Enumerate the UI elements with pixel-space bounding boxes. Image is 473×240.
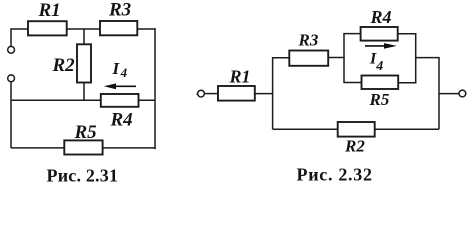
terminal: fig2.31 lower input terminal [8, 75, 15, 82]
wire: fig2.32 left node to R5 [344, 82, 362, 84]
svg-text:R4: R4 [370, 7, 392, 27]
svg-text:R1: R1 [38, 0, 61, 21]
svg-text:R3: R3 [108, 0, 131, 21]
resistor R3 (fig2.31) [100, 21, 137, 35]
svg-text:Рис. 2.32: Рис. 2.32 [297, 165, 373, 185]
wire: fig2.31 bottom wire [11, 147, 156, 149]
resistor R2 (fig2.31) [77, 44, 91, 82]
svg-text:I4: I4 [112, 59, 128, 80]
resistor R5 (fig2.31) [64, 140, 102, 154]
svg-text:R1: R1 [229, 67, 251, 87]
svg-text:R5: R5 [74, 122, 98, 143]
wire: fig2.32 parallel right node vertical [415, 33, 417, 83]
svg-text:R2: R2 [52, 55, 76, 76]
wire: fig2.32 R3 to parallel left node [328, 57, 345, 59]
wire: fig2.32 right node output [416, 57, 440, 59]
resistor R4 (fig2.31) [101, 94, 139, 107]
terminal: fig2.32 left terminal [198, 90, 205, 97]
wire: fig2.32 R4 to right node [398, 33, 417, 35]
current arrow I4 (fig2.32, pointing right) [365, 43, 397, 49]
resistor R4 (fig2.32) [361, 27, 398, 41]
terminal: fig2.32 right terminal [459, 90, 466, 97]
wire: fig2.32 junction to R3 [273, 57, 290, 59]
terminal: fig2.31 upper input terminal [8, 46, 15, 53]
svg-text:R3: R3 [298, 31, 319, 50]
wire: fig2.32 left junction vertical [272, 57, 274, 129]
wire: fig2.31 stub from R2 down to middle wire [83, 83, 85, 101]
resistor R1 (fig2.31) [28, 21, 67, 35]
wire: fig2.32 right vertical [438, 58, 440, 130]
wire: fig2.31 stub from top wire down to R2 [83, 29, 85, 44]
resistor R1 (fig2.32) [218, 86, 255, 101]
wire: fig2.32 R1 to left junction [255, 93, 273, 95]
wire: fig2.31 right vertical [154, 28, 156, 149]
wire: fig2.32 left node to R4 [344, 33, 361, 35]
wire: fig2.31 top wire [11, 28, 156, 30]
resistor R3 (fig2.32) [289, 51, 328, 66]
wire: fig2.32 parallel left node vertical [343, 33, 345, 83]
wire: fig2.32 tiny stub left of terminal [197, 93, 198, 95]
svg-text:R5: R5 [369, 90, 390, 109]
wire: fig2.31 left stub to upper terminal [10, 28, 12, 46]
svg-text:I4: I4 [369, 51, 383, 75]
resistor R2 (fig2.32) [338, 122, 375, 137]
wire: fig2.32 R5 to right node [398, 82, 416, 84]
wire: fig2.31 left vertical from lower terminal to bottom wire [10, 82, 12, 148]
svg-text:R2: R2 [344, 137, 365, 156]
svg-text:Рис. 2.31: Рис. 2.31 [47, 166, 119, 186]
wire: fig2.32 bottom wire through R2 [273, 128, 439, 130]
svg-text:R4: R4 [110, 110, 133, 131]
wire: fig2.31 middle horizontal wire [11, 99, 155, 101]
current arrow I4 (fig2.31, pointing left) [104, 83, 136, 89]
wire: fig2.32 left terminal to R1 [204, 93, 218, 95]
wire: fig2.32 to right terminal [439, 93, 459, 95]
resistor R5 (fig2.32) [362, 76, 399, 90]
